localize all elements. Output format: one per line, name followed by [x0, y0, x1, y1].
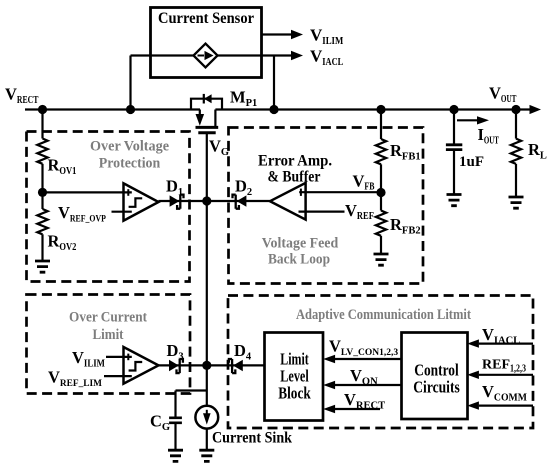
diode D3 (Schottky)	[169, 360, 179, 371]
arrow: IOUT arrowhead	[477, 116, 489, 124]
svg-text:Limit: Limit	[93, 327, 124, 343]
wire: CG to ground	[174, 423, 176, 450]
wire: VON arrow	[335, 384, 402, 386]
svg-text:VIACL: VIACL	[310, 47, 343, 69]
node: D1-D2 junction on VG line	[202, 196, 211, 205]
current sensor block	[151, 8, 262, 78]
svg-text:Over Current: Over Current	[69, 310, 147, 326]
node: right sense/rail junction	[269, 105, 278, 114]
wire: D1-D2 line	[159, 200, 271, 202]
ground (RL)	[509, 197, 524, 208]
hysteresis symbol U3	[129, 362, 143, 371]
ground (1uF)	[447, 195, 462, 206]
dashed box: Adaptive Communication Litmit	[228, 296, 533, 429]
svg-text:Circuits: Circuits	[413, 378, 460, 397]
transistor MP1 drain arrow	[199, 110, 201, 116]
ground (RFB2)	[374, 254, 389, 265]
resistor RL	[511, 139, 521, 164]
wire: rail to RL	[515, 110, 517, 139]
wire: D3-D4 line	[159, 364, 265, 366]
svg-text:VREF_LIM: VREF_LIM	[48, 368, 102, 390]
current source symbol U_CS (diamond)	[194, 44, 218, 68]
arrow: VOUT rail arrowhead	[530, 105, 542, 114]
svg-text:Current Sink: Current Sink	[212, 430, 292, 447]
svg-text:Over Voltage: Over Voltage	[90, 139, 169, 155]
wire: RL to ground	[515, 164, 517, 197]
svg-text:Voltage Feed: Voltage Feed	[262, 236, 339, 252]
svg-text:CG: CG	[150, 412, 170, 434]
node: VFB	[376, 188, 385, 197]
ground (OVP divider)	[35, 261, 50, 272]
node: output cap tap	[449, 105, 458, 114]
svg-text:Current Sensor: Current Sensor	[158, 10, 254, 27]
svg-text:VFB: VFB	[353, 172, 375, 193]
transistor MP1 channel plate	[196, 126, 219, 129]
node: OVP divider tap	[38, 188, 47, 197]
resistor RFB1	[376, 139, 386, 164]
wire: main rail left segment (VRECT)	[25, 108, 200, 110]
wire: left sense riser	[129, 56, 131, 110]
op-amp U1 (OVP comparator)	[124, 183, 159, 220]
transistor MP1 body diode loop	[191, 99, 222, 110]
svg-text:IOUT: IOUT	[478, 125, 499, 147]
wire: right sense riser	[273, 56, 275, 110]
transistor MP1 right connector	[214, 110, 216, 128]
svg-text:VG: VG	[209, 137, 229, 159]
svg-text:Block: Block	[278, 384, 311, 403]
resistor ROV2	[37, 209, 47, 234]
svg-text:VIACL: VIACL	[482, 325, 520, 347]
svg-text:D2: D2	[235, 177, 252, 199]
wire: ROV2 to ground	[41, 234, 43, 261]
ground (current sink)	[199, 450, 214, 461]
svg-text:VOUT: VOUT	[489, 84, 516, 106]
wire: VLV_CON arrow	[335, 358, 402, 360]
resistor ROV1	[37, 139, 47, 164]
node: RFB tap on rail	[376, 105, 385, 114]
wire: VRECT to ROV1	[41, 110, 43, 139]
wire: CG stub	[176, 389, 207, 391]
wire: RFB1 to VFB node	[380, 164, 382, 210]
wire: VRECT arrow	[335, 408, 380, 410]
block: Control Circuits	[402, 333, 468, 420]
svg-text:D1: D1	[166, 177, 183, 199]
wire: current sense line through diamond	[131, 54, 292, 56]
svg-text:ROV2: ROV2	[48, 232, 77, 254]
wire: VREF_OVP stub	[112, 211, 132, 213]
op-amp U2 (error amp)	[270, 183, 306, 220]
node: ROV1 tap on rail	[38, 105, 47, 114]
wire: VREF stub	[299, 211, 345, 213]
node: D3-D4 junction on VG line	[202, 361, 211, 370]
dashed box: Over Voltage Protection	[27, 132, 190, 282]
wire: main rail right segment (to VOUT)	[215, 108, 530, 110]
svg-text:VREF: VREF	[345, 201, 374, 222]
wire: VCOMM input arrow	[479, 405, 533, 407]
svg-text:& Buffer: & Buffer	[268, 169, 321, 186]
wire: REF input arrow	[479, 374, 533, 376]
svg-text:VILIM: VILIM	[72, 348, 105, 370]
svg-text:ROV1: ROV1	[48, 156, 77, 178]
svg-text:VRECT: VRECT	[5, 85, 38, 107]
svg-text:VILIM: VILIM	[310, 26, 343, 48]
wire: 1uF to ground	[453, 150, 455, 195]
svg-text:MP1: MP1	[230, 88, 257, 110]
wire: rail to RFB1	[380, 110, 382, 140]
wire: VIACL input arrow	[479, 343, 533, 345]
transistor MP1 body diode	[203, 94, 205, 104]
node: RL tap	[511, 105, 520, 114]
arrow: VILIM arrowhead	[291, 30, 303, 40]
wire: divider to comparator + input	[43, 191, 132, 193]
svg-text:Adaptive Communication Litmit: Adaptive Communication Litmit	[296, 307, 471, 323]
wire: VFB to error amp + input	[299, 191, 381, 193]
wire: rail to 1uF	[453, 110, 455, 145]
wire: RFB2 to ground	[380, 236, 382, 254]
node: left sense/rail junction	[126, 105, 135, 114]
ground (CG)	[168, 450, 183, 461]
wire: sink to ground	[206, 429, 208, 451]
svg-text:Error Amp.: Error Amp.	[258, 153, 332, 170]
capacitor 1uF	[446, 145, 462, 150]
block: Limit Level Block	[265, 333, 324, 421]
hysteresis symbol U1	[129, 198, 143, 207]
wire: VREF_LIM stub	[104, 375, 132, 377]
svg-text:1uF: 1uF	[459, 154, 484, 170]
svg-text:RFB1: RFB1	[390, 141, 421, 163]
svg-text:VON: VON	[350, 366, 378, 388]
svg-text:VREF_OVP: VREF_OVP	[58, 203, 106, 225]
op-amp U3 (OCL comparator)	[124, 347, 159, 384]
diode D2 (Schottky)	[237, 195, 247, 206]
diode D1 (Schottky)	[170, 195, 180, 206]
wire: VILIM stub	[106, 356, 132, 358]
svg-text:Protection: Protection	[99, 156, 161, 172]
wire: VG gate line (vertical)	[206, 133, 208, 406]
wire: divider node to ROV2	[41, 192, 43, 209]
wire: ROV1 to divider node	[41, 164, 43, 193]
svg-text:D3: D3	[167, 341, 184, 363]
dashed box: Voltage Feed Back Loop	[229, 128, 424, 284]
svg-text:RL: RL	[528, 140, 547, 162]
plus marker U2	[300, 189, 302, 196]
plus marker U1	[127, 189, 129, 196]
svg-text:D4: D4	[234, 341, 252, 363]
diode D4 (Schottky)	[233, 360, 243, 371]
arrow: VIACL arrowhead	[291, 51, 303, 61]
resistor RFB2	[376, 211, 386, 236]
svg-text:VLV_CON1,2,3: VLV_CON1,2,3	[329, 337, 398, 359]
svg-text:Back Loop: Back Loop	[268, 252, 330, 268]
transistor MP1 gate plate	[198, 131, 215, 134]
wire: IOUT arrow	[457, 119, 477, 121]
svg-text:VCOMM: VCOMM	[482, 382, 527, 404]
svg-text:RFB2: RFB2	[390, 215, 421, 237]
dashed box: Over Current Limit	[27, 295, 191, 394]
plus marker U3	[127, 354, 129, 361]
wire: VILIM output line	[262, 33, 292, 35]
svg-text:VRECT: VRECT	[344, 390, 385, 412]
capacitor CG	[169, 418, 182, 423]
current sink I1	[195, 406, 218, 429]
svg-text:REF1,2,3: REF1,2,3	[482, 358, 526, 375]
wire: stub to CG	[174, 391, 176, 418]
